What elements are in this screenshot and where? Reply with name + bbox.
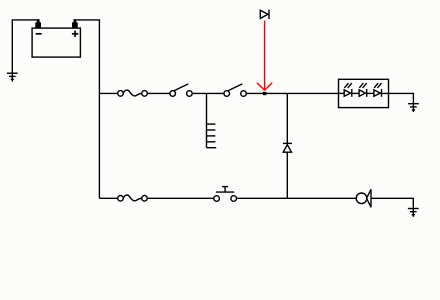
wire inside module (339, 92, 345, 94)
switch S2 (224, 84, 246, 96)
LED D4 (374, 83, 382, 97)
wire (192, 92, 224, 94)
wire (352, 92, 359, 94)
node A (263, 92, 266, 95)
wire (147, 197, 214, 199)
wire (246, 92, 338, 94)
wire bottom row (99, 197, 117, 199)
wire diode branch upper (286, 93, 288, 143)
switch S1 (170, 84, 192, 96)
wire (237, 197, 357, 199)
fuse F1 (118, 90, 148, 96)
pushbutton SW1 (214, 187, 237, 202)
wire (147, 92, 170, 94)
battery BT1 (32, 19, 80, 57)
fuse F2 (118, 195, 148, 201)
LED D3 (359, 83, 367, 97)
wire battery positive to bus (75, 20, 99, 198)
diode D1 (283, 143, 292, 152)
inductor L1 (207, 93, 217, 147)
LED D2 (344, 83, 352, 97)
wire battery negative to ground (12, 20, 38, 73)
horn LS1 (356, 189, 371, 207)
LED module box (339, 79, 389, 107)
annotation arrow (red) (257, 21, 272, 91)
wire (367, 92, 374, 94)
ground (408, 208, 419, 217)
ground (408, 104, 419, 113)
wire diode branch lower (286, 152, 288, 198)
ground (7, 73, 18, 82)
wire horn to ground (371, 198, 413, 208)
wire (99, 92, 117, 94)
diode annotation glyph (260, 10, 269, 19)
wire module to ground (382, 93, 414, 103)
